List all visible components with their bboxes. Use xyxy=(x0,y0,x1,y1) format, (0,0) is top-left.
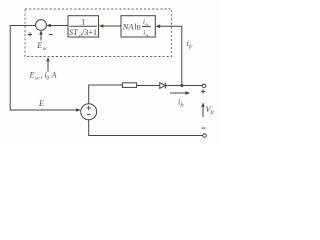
summing junction S1 xyxy=(36,20,47,31)
svg-text:0: 0 xyxy=(47,77,50,82)
wire: source bottom to negative output terminal xyxy=(89,120,203,136)
svg-text:ST: ST xyxy=(69,28,79,37)
label E_oc, i_0, A external parameters xyxy=(29,71,57,82)
svg-text:fc: fc xyxy=(189,45,193,50)
minus sign at summing junction xyxy=(49,33,53,36)
svg-text:ln: ln xyxy=(134,22,141,31)
plus sign at summing junction xyxy=(28,32,32,36)
arrowhead into source E xyxy=(76,108,81,112)
positive output terminal xyxy=(202,84,206,88)
label V_fc xyxy=(206,105,215,116)
dashed model boundary box xyxy=(25,9,172,57)
svg-text:1: 1 xyxy=(81,16,85,26)
svg-text:NA: NA xyxy=(122,22,135,31)
wire: block U1 output to summing junction xyxy=(48,25,69,27)
block U1 transfer function 1/(sTd/3+1) xyxy=(68,16,99,37)
controlled voltage source E xyxy=(81,104,97,120)
wire: external parameters arrow into dashed box xyxy=(47,58,49,71)
diode D1 xyxy=(160,83,165,89)
svg-text:/3+1: /3+1 xyxy=(82,28,97,37)
svg-text:fc: fc xyxy=(211,111,215,116)
V_fc voltage arrow xyxy=(202,104,204,117)
block U2 activation loss NA ln(i_fc/i_0) xyxy=(121,16,155,37)
wire: block U2 output to block U1 xyxy=(100,25,121,27)
wire: diode to positive output terminal xyxy=(165,85,202,87)
current arrow i_fc xyxy=(170,92,189,94)
wire: E_oc input arrow into summing junction xyxy=(40,32,42,41)
svg-text:E: E xyxy=(38,99,44,108)
wire: resistor to diode xyxy=(137,85,160,87)
minus sign at output xyxy=(202,127,206,130)
svg-text:oc: oc xyxy=(43,47,49,52)
svg-text:A: A xyxy=(51,71,57,80)
E_oc label xyxy=(36,41,48,52)
negative output terminal xyxy=(203,134,207,138)
wire: source top to resistor xyxy=(89,85,123,104)
svg-text:E: E xyxy=(36,41,42,50)
resistor R_ohm xyxy=(122,83,136,88)
wire: i_fc feedback from output node up and left into block U2 xyxy=(157,26,182,85)
plus sign at output xyxy=(201,89,205,93)
svg-text:fc: fc xyxy=(181,104,185,109)
junction node dot xyxy=(180,84,183,87)
label i_fc output current xyxy=(178,98,185,109)
svg-text:E: E xyxy=(29,71,35,80)
label i_fc on feedback wire xyxy=(187,39,194,50)
wire: summing junction output left and down to E node xyxy=(10,26,79,111)
